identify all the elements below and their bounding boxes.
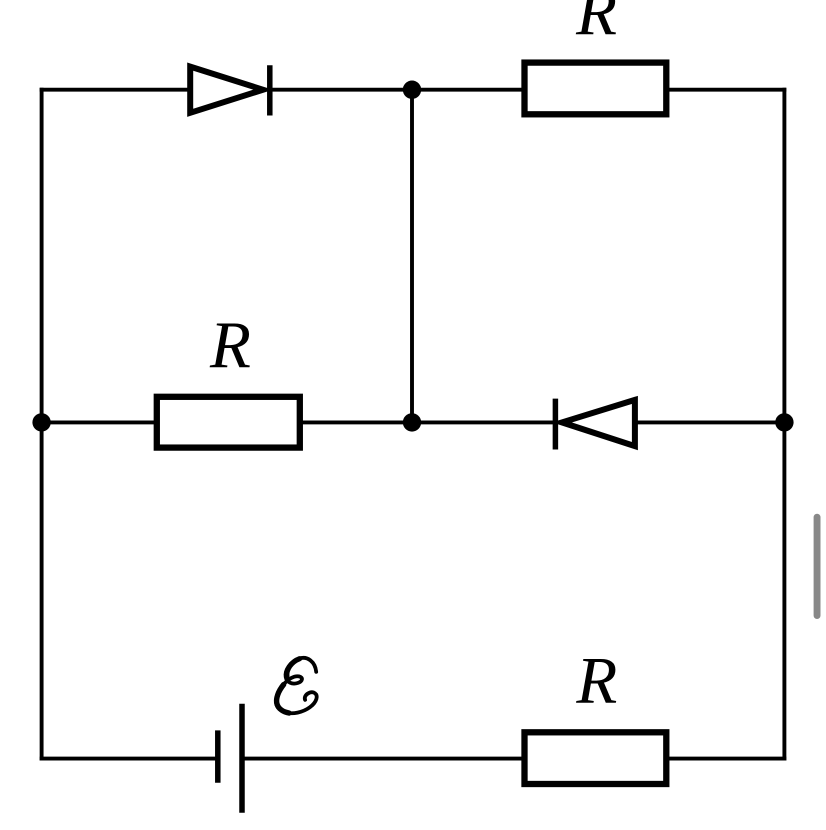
wire top from resistor R top to right corner <box>668 88 786 92</box>
svg-text:R: R <box>209 308 251 382</box>
wire right vertical bottom half <box>782 422 786 760</box>
resistor R bottom box <box>525 732 667 784</box>
wire middle vertical from node A to node C <box>410 90 414 423</box>
wire bottom from battery to resistor R bottom <box>244 757 524 761</box>
wire middle from diode D2 to node D <box>637 420 785 424</box>
wire middle from node C to diode D2 <box>412 420 555 424</box>
scrollbar thumb <box>814 514 821 619</box>
resistor R top box <box>525 63 667 115</box>
wire top from left corner to diode D1 <box>40 88 190 92</box>
wire bottom from left corner to battery <box>40 757 216 761</box>
battery short plate <box>215 730 221 782</box>
svg-text:R: R <box>575 0 617 49</box>
node B junction dot <box>32 413 50 431</box>
wire left vertical bottom half <box>40 422 44 760</box>
wire middle from node B to resistor R middle <box>42 420 155 424</box>
wire right vertical top half <box>782 88 786 423</box>
diode D1 triangle <box>190 67 263 113</box>
wire middle from resistor R middle to node C <box>302 420 413 424</box>
diode D2 cathode bar <box>553 399 559 450</box>
node C junction dot <box>403 413 421 431</box>
resistor R middle box <box>157 397 300 448</box>
battery long plate <box>239 704 245 813</box>
node A junction dot <box>403 81 421 99</box>
node D junction dot <box>775 413 793 431</box>
wire left vertical top half <box>40 88 44 423</box>
wire bottom from resistor R bottom to right corner <box>668 757 786 761</box>
diode D2 triangle <box>562 400 635 446</box>
wire top from diode D1 to node A <box>270 88 412 92</box>
diode D1 cathode bar <box>267 65 273 115</box>
svg-text:R: R <box>575 643 617 717</box>
wire top from node A to resistor R top <box>412 88 523 92</box>
label EMF script E <box>276 658 317 713</box>
